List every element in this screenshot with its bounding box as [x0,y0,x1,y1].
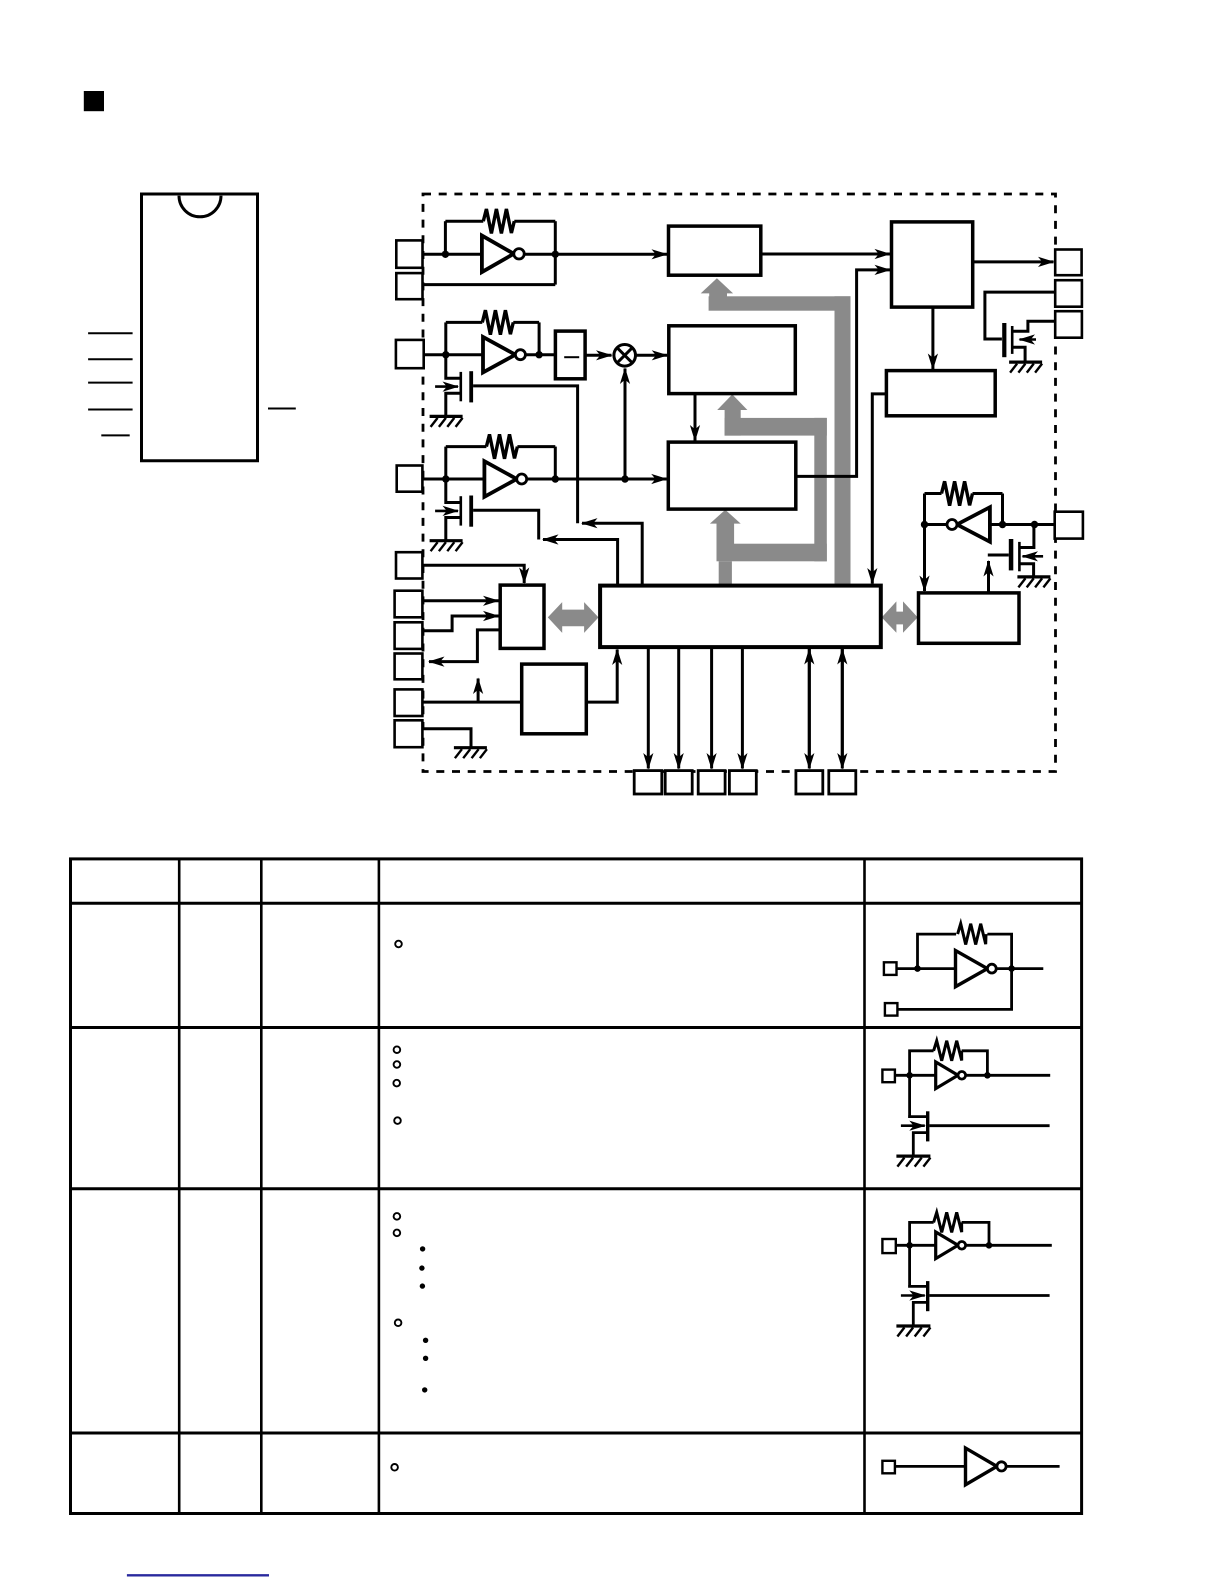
row1 list bullet [395,941,402,948]
pin FOUT (square) [1055,250,1081,276]
row2 wire pin to inverter [895,1074,936,1077]
pin XT2 (square) [396,273,422,299]
wire WR pin to interface block [422,616,498,631]
transistor Q4 drain wire [1020,525,1034,548]
wire bus to pin D1 (arrow down) [677,647,680,768]
row1 pin square lower [885,1003,898,1016]
resistor Rf3 (feedback of G3) [486,434,517,458]
row3 MOSFET source wire [913,1302,927,1326]
transistor Q4 channel bar [1018,542,1021,571]
row3 node input [906,1242,913,1249]
gray bus branch to counter block3 (arrow up + trunk) [710,510,827,586]
row4 inverter [966,1448,997,1485]
table row line 1 [71,1026,1082,1029]
inverter G3 (oscillator amp) [484,461,516,497]
row3 MOSFET gate riser [908,1245,927,1286]
transistor Q3 gate control wire [473,510,539,539]
node at G2 output [535,351,542,358]
row4 wire pin to inverter [895,1465,966,1468]
gray double arrow interface-bus [548,602,599,633]
wire GND pin to ground [422,729,471,748]
wire feedback riser left (G3) [444,447,447,479]
wire bus to pin D5 (bidirectional) [841,649,844,769]
table column line 2 [260,859,263,1514]
node at G1 input [442,251,449,258]
inverter G1 (oscillator amp) [482,236,514,272]
inverter G4 (left-pointing) [957,507,990,542]
row1 node input [914,965,921,972]
pin D1 (square) [665,771,692,794]
wire feedback top rail right segment (G3) [517,445,555,448]
wire half divider to mixer [585,354,611,357]
pin name overbar (right of package) [268,408,296,410]
transistor Q3 drain wire from node [446,479,461,503]
wire feedback riser left (G2) [444,322,447,354]
wire G2 output to half divider [525,353,555,356]
pin D0 (square) [634,771,662,794]
wire right cell rail [925,523,1056,526]
row3 MOSFET channel bar [926,1281,929,1311]
block internal bus / shift register [600,586,881,648]
row3 ground [896,1326,930,1337]
inverter G2 (oscillator amp) [483,337,515,373]
table header separator [71,902,1082,905]
row3 resistor [934,1212,962,1232]
transistor Q4 gate bar [1009,539,1014,570]
row1 wire pin to inverter [897,967,956,970]
transistor Q3 body arrow [435,510,458,513]
transistor Q1 source wire [1014,347,1026,362]
pin RD (square) [395,591,423,618]
wire feedback riser right (G3) [554,447,557,479]
pin GND (square) [395,720,423,747]
transistor Q2 drain wire from node [446,355,461,379]
transistor Q3 source wire [446,518,461,541]
node at G3 input [442,475,449,482]
table column line 1 [178,859,181,1514]
wire output control down to voltage detector [931,307,934,369]
row3 inverter [936,1232,958,1259]
block divider2 (frequency adjust) [669,326,796,394]
ground for Q1 [1009,362,1042,373]
control wire from bus to Q3 gate [543,540,618,586]
wire feedback riser left (G1) [444,221,447,254]
block divider (OSC1 waveform shaping) [669,226,761,275]
row3 sub list dots [419,1246,428,1392]
pin name overbar 3 (left) [88,382,133,384]
pin A0 (square) [395,689,423,716]
row4 list bullet [391,1464,398,1471]
row2 resistor [934,1041,962,1061]
wire feedback top rail left segment (G3) [446,445,487,448]
row2 ground [896,1156,930,1167]
wire G1 output [525,253,556,256]
row1 resistor [958,924,986,945]
transistor Q2 gate bar [469,371,473,402]
pin D4 (square) [796,771,823,794]
transistor Q4 gate lead [988,554,1009,557]
transistor Q3 channel bar [459,496,462,525]
wire OSC2 pin to inverter G2 [424,353,483,356]
pin name overbar 4 (left) [88,409,133,411]
wire bus to pin D4 (bidirectional) [808,649,811,769]
block counter (timer) [668,442,796,509]
block voltage detector [886,371,995,416]
wire feedback riser left (G4) [923,494,926,525]
gray bus branch to divider2 block2 (arrow up + elbow) [717,394,827,561]
pin right4 (square) [1055,512,1083,539]
row1 feedback loop wires [918,934,1012,969]
transistor Q1 drain wire to pin right3 [1014,321,1056,331]
control wire from bus to Q2 gate [582,523,642,585]
wire G3 output to counter block [527,478,667,481]
IC internal boundary (dashed box) [423,194,1056,772]
floating arrow up from A0 wire [477,679,480,703]
fraction bar inside half divider [564,356,579,358]
row1 wire lower pin loop [897,969,1011,1010]
section heading square bullet [84,91,104,111]
wire CS pin to interface block top [422,565,524,583]
gray bus trunk (tall vertical band) [835,296,851,585]
transistor Q4 body arrow [1023,555,1044,558]
row2 list bullets [393,1046,400,1124]
transistor Q1 body arrow [1020,338,1037,341]
wire mixer to divider2 block [636,354,668,357]
wire feedback riser right (G2) [538,322,541,354]
row2 node input [906,1072,913,1079]
ground for Q2 [430,416,463,427]
block register (right) [919,593,1020,643]
wire G4 output down to register block [923,525,926,592]
pin name overbar 2 (left) [88,358,133,360]
row3 MOSFET drain line [929,1294,1049,1297]
row2 pin square [882,1070,895,1083]
wire bus to pin D2 (arrow down) [710,647,713,768]
transistor Q2 channel bar [459,372,462,401]
resistor Rf2 (feedback of G2) [482,310,513,334]
row1 pin square upper [884,962,897,975]
row1 inverter [956,951,988,987]
pin name overbar 5 (left) [101,434,129,436]
wire feedback top rail left segment (G2) [446,321,483,324]
wire riser from G3 output to mixer input [624,369,627,480]
pin name overbar 1 (left) [88,332,133,334]
pin OSC3 in (square) [397,466,423,492]
table column line 4 [863,859,866,1514]
wire output control to pin FOUT [973,260,1054,263]
row3 pin square [882,1239,895,1253]
wire feedback top rail left segment (G4) [925,492,942,495]
row3 list bullets [394,1213,402,1326]
table row line 2 [71,1187,1082,1190]
row3 wire pin to inverter [896,1244,936,1247]
ground for GND pin [454,748,487,759]
wire XT2 to feedback loop [423,283,556,286]
wire feedback riser right (G1) [554,221,557,284]
node right cell left [921,521,928,528]
wire feedback top rail left segment (G1) [445,220,483,223]
transistor Q4 source wire [1020,564,1033,577]
pin CS (square) [396,552,422,578]
row1 node output [1008,965,1015,972]
wire OSC1 output to divider block [555,253,667,256]
wire interface to IRQ pin (arrow left) [429,630,500,662]
row2 feedback loop wires [910,1051,988,1076]
node at G3 output [552,475,559,482]
pin D2 (square) [698,771,725,794]
transistor Q1 channel bar [1011,326,1014,354]
row2 MOSFET body arrow [901,1124,925,1127]
transistor Q3 gate bar [469,496,473,527]
node right cell mid [999,521,1006,528]
wire register to MOSFET Q4 gate (arrow up) [987,561,990,593]
node right cell drain [1031,521,1038,528]
pin square right 3 [1055,311,1082,338]
row3 wire inverter output [966,1244,1052,1247]
pin square right 2 [1055,280,1082,307]
node at G1 output [552,251,559,258]
block output control [892,222,973,307]
transistor Q2 body arrow [435,385,458,388]
row2 MOSFET gate riser [908,1075,927,1116]
row2 wire inverter output [966,1074,1051,1077]
gray double arrow bus-register [882,601,918,632]
row2 MOSFET channel bar [926,1111,929,1141]
ground for Q4 [1017,577,1050,588]
transistor Q1 gate bar [1002,323,1006,357]
row2 inverter [936,1062,958,1089]
wire feedback top rail right segment (G4) [973,492,1003,495]
transistor Q2 source wire [446,393,461,416]
block interface [500,585,544,648]
wire XT1 to inverter G1 input [423,253,482,256]
row1 wire inverter output [996,967,1043,970]
wire feedback top rail right segment (G1) [514,220,555,223]
row2 MOSFET drain line [929,1124,1049,1127]
wire feedback top rail right segment (G2) [513,321,539,324]
resistor Rf4 (feedback of G4) [942,481,973,505]
block address decoder [522,664,587,734]
wire divider to output control block [761,253,890,256]
row3 MOSFET body arrow [901,1294,925,1297]
resistor Rf1 (feedback of G1) [483,209,514,233]
pin D5 (square) [829,771,856,794]
mixer (circle with X) [614,345,636,367]
pin D3 (square) [729,771,756,794]
node at G2 input [442,351,449,358]
block half divider (1/2) [555,331,585,379]
transistor Q2 gate control wire [473,386,577,523]
wire address decoder to bus block [586,650,617,703]
wire A0 pin to address decoder [422,701,521,704]
pin WR (square) [395,622,423,649]
wire RD pin to interface block [422,599,498,602]
wire feedback riser right (G4) [1001,494,1004,525]
table row line 3 [71,1432,1082,1435]
wire voltage detector to bus (down) [872,394,886,584]
row3 feedback loop wires [910,1222,989,1245]
ground for Q3 [430,541,463,552]
footer link underline (blue) [127,1574,269,1576]
row3 node output [986,1242,993,1249]
wire bus to pin D3 (arrow down) [741,647,744,768]
wire bus to pin D0 (arrow down) [647,647,650,768]
wire pin right2 to MOSFET Q1 gate [985,292,1055,339]
wire OSC3 pin to inverter G3 [422,478,484,481]
node at mixer riser junction [621,475,628,482]
pin XT1 (square) [396,240,422,267]
IC package body (DIP outline) [142,194,258,461]
pin IRQ (square) [395,654,423,680]
wire divider2 down to counter block [694,394,697,441]
table column line 3 [378,859,381,1514]
pin OSC2 in (square) [396,340,424,368]
row4 pin square [882,1461,895,1474]
wire counter output to output control (riser) [796,270,890,477]
gray bus branch to divider block1 (arrow up) [701,278,851,310]
row2 node output [984,1072,991,1079]
row2 MOSFET source wire [913,1133,927,1157]
row4 wire inverter output [1006,1465,1060,1468]
table outer border [71,859,1082,1514]
